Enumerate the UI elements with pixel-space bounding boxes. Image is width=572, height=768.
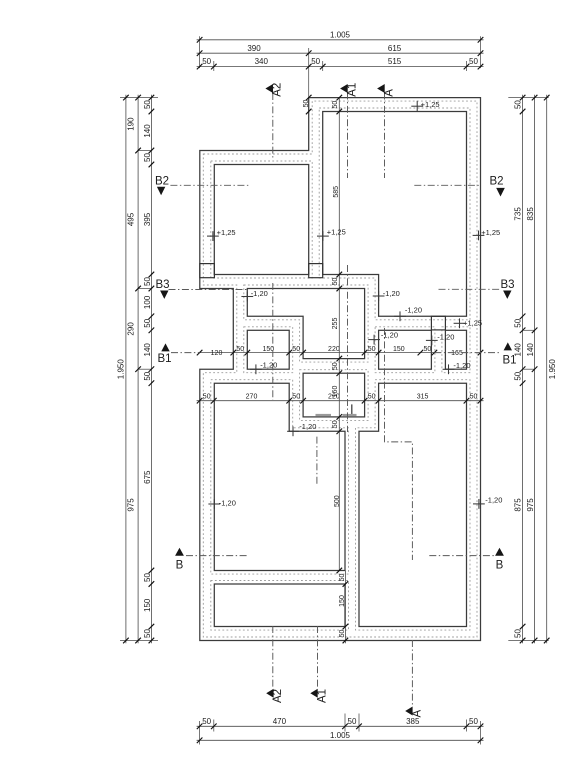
svg-text:675: 675 [143, 470, 152, 484]
svg-text:-1,20: -1,20 [251, 289, 268, 298]
top extension lines [199, 36, 201, 68]
svg-text:50: 50 [203, 393, 211, 400]
bottom strip room outline [214, 584, 345, 627]
svg-text:50: 50 [332, 101, 339, 109]
svg-text:255: 255 [332, 318, 339, 330]
svg-text:B2: B2 [489, 176, 503, 188]
level mark -1,20 room BL step [287, 426, 299, 436]
section marker B right [495, 548, 504, 556]
svg-text:50: 50 [202, 717, 211, 726]
svg-text:B: B [176, 560, 184, 572]
svg-text:50: 50 [470, 393, 478, 400]
top dimension line 50/340/50/515/50 [197, 66, 484, 68]
svg-text:A: A [412, 710, 424, 718]
svg-text:50: 50 [143, 153, 152, 162]
outer wall footprint outline [200, 98, 481, 641]
level mark +1,25 room TR top [411, 101, 423, 112]
section line B3 left [169, 289, 248, 291]
svg-text:-1,20: -1,20 [260, 361, 277, 370]
footing dotted line: corridor cell right offset [442, 327, 470, 373]
svg-text:975: 975 [526, 498, 535, 512]
level mark -1,20 L-room top right [373, 291, 385, 301]
svg-text:100: 100 [143, 295, 152, 309]
svg-text:495: 495 [127, 212, 136, 226]
svg-text:B1: B1 [157, 353, 171, 365]
svg-text:50: 50 [292, 393, 300, 400]
svg-text:150: 150 [143, 598, 152, 612]
section line A [384, 93, 386, 179]
section marker A2 top [265, 84, 273, 93]
level mark -1,20 corridor wall [426, 336, 438, 346]
svg-text:50: 50 [514, 629, 523, 638]
footing dotted line: room TL offset [211, 161, 312, 278]
section line B right [429, 555, 494, 557]
right dimension ticks [520, 95, 550, 644]
section line B2 left [170, 184, 249, 186]
left dimension ticks [123, 95, 154, 644]
bottom dimension line 1.005 [197, 739, 484, 741]
level mark -1,20 room BR right [473, 499, 485, 509]
footing dotted line: pit room P offset [244, 327, 293, 373]
section line B1 right [434, 352, 501, 354]
level mark +1,25 room TL left [207, 231, 219, 241]
footing dotted line: room BL offset [211, 380, 349, 574]
section marker B2 right [496, 188, 505, 197]
svg-text:A2: A2 [272, 83, 284, 97]
room 160 outline [303, 373, 365, 417]
footing dotted line: room TR offset [319, 108, 470, 320]
room BL outline [214, 383, 345, 570]
level mark -1,20 pit room P [250, 364, 262, 374]
svg-text:835: 835 [526, 207, 535, 221]
svg-text:1.950: 1.950 [117, 359, 126, 380]
right dimension line outer 1.950 [546, 95, 548, 644]
svg-text:-1,20: -1,20 [437, 332, 454, 341]
footing dotted line: room BR offset [356, 380, 471, 630]
svg-text:+1,25: +1,25 [217, 228, 236, 237]
svg-text:50: 50 [303, 100, 310, 108]
svg-text:50: 50 [339, 574, 346, 582]
svg-text:615: 615 [388, 44, 402, 53]
section line B left [186, 555, 248, 557]
top dimension ticks [197, 37, 484, 69]
svg-text:140: 140 [526, 343, 535, 357]
svg-text:50: 50 [202, 57, 211, 66]
section line A1 [347, 93, 349, 179]
svg-text:50: 50 [514, 318, 523, 327]
footing dotted line: room 160 offset [300, 370, 369, 421]
section line A2 [272, 93, 274, 158]
svg-text:-1,20: -1,20 [219, 499, 236, 508]
svg-text:50: 50 [143, 100, 152, 109]
svg-text:+1,25: +1,25 [327, 227, 346, 236]
bottom dimension ticks [197, 724, 484, 744]
section marker B2 left [157, 187, 165, 195]
footing dotted line: corridor cell left offset [375, 327, 435, 373]
svg-text:B3: B3 [500, 279, 514, 291]
svg-text:340: 340 [255, 57, 269, 66]
svg-text:+1,25: +1,25 [463, 319, 482, 328]
svg-text:160: 160 [332, 386, 339, 398]
bottom extension lines [199, 721, 201, 745]
svg-text:50: 50 [143, 573, 152, 582]
svg-text:50: 50 [311, 57, 320, 66]
svg-text:50: 50 [332, 362, 339, 370]
svg-text:220: 220 [328, 346, 340, 353]
bottom strip vertical dimension 50/150/50 [344, 571, 346, 644]
section line B1 left stub [171, 352, 200, 354]
svg-text:190: 190 [127, 117, 136, 131]
section marker A2 bottom [266, 689, 273, 698]
mid L-shaped room outline [247, 289, 364, 359]
top dimension line 1.005 [197, 39, 484, 41]
svg-text:50: 50 [332, 278, 339, 286]
svg-text:50: 50 [368, 393, 376, 400]
opening mark 1 in room 160 [316, 414, 332, 417]
svg-text:-1,20: -1,20 [381, 330, 398, 339]
svg-text:B2: B2 [155, 175, 169, 187]
opening jamb line in room 160 [351, 404, 353, 417]
left dimension line outer 1.950 [125, 95, 127, 644]
level mark -1,20 L-room top left [241, 292, 253, 302]
svg-text:50: 50 [339, 630, 346, 638]
section marker B3 left [160, 291, 168, 299]
svg-text:315: 315 [417, 393, 429, 400]
section marker B left [175, 548, 184, 556]
svg-text:140: 140 [143, 343, 152, 357]
svg-text:875: 875 [514, 498, 523, 512]
svg-text:50: 50 [514, 371, 523, 380]
svg-text:-1,20: -1,20 [485, 496, 502, 505]
svg-text:+1,25: +1,25 [481, 228, 500, 237]
level mark -1,20 TR bottom wall [394, 311, 406, 321]
svg-text:B1: B1 [502, 355, 516, 367]
svg-text:+1,25: +1,25 [421, 100, 440, 109]
left extension lines [120, 97, 158, 99]
svg-text:50: 50 [469, 57, 478, 66]
svg-text:50: 50 [236, 346, 244, 353]
B1 level dimension chain 120/50/150/50/220/50/150/50/165 [200, 352, 435, 354]
pilaster block left [200, 264, 215, 278]
top dimension line 390/615 [197, 52, 484, 54]
section marker A1 bottom [310, 689, 317, 698]
footing dotted line: L-shaped mid room offset [244, 285, 368, 362]
footing dotted line: bottom strip room offset [211, 581, 349, 631]
section marker B1 right [504, 342, 512, 350]
section marker A top [377, 84, 385, 93]
level mark +1,25 room TL right [317, 231, 329, 241]
lower mid dimension chain 50/270/50/220/50/315/50 [197, 400, 484, 402]
level mark -1,20 room BL left [208, 499, 220, 509]
svg-text:395: 395 [143, 212, 152, 226]
svg-text:500: 500 [334, 495, 341, 507]
svg-text:B3: B3 [155, 279, 169, 291]
svg-text:1.005: 1.005 [330, 731, 351, 740]
central vertical dimension line 50/585/50/255/50/160/50/500 [338, 98, 340, 571]
svg-text:50: 50 [292, 346, 300, 353]
svg-text:A: A [384, 89, 396, 97]
footing dotted line: outer footprint inset [203, 101, 477, 637]
left dimension line middle chain [137, 95, 139, 644]
right extension lines [508, 97, 548, 99]
svg-text:A1: A1 [347, 83, 359, 97]
bottom dimension line 50/470/50/385/50 [197, 725, 484, 727]
section line B3 right [439, 288, 502, 290]
svg-text:1.005: 1.005 [330, 30, 351, 39]
svg-text:50: 50 [348, 717, 357, 726]
svg-text:140: 140 [143, 124, 152, 138]
corridor cell right outline [445, 330, 466, 369]
svg-text:50: 50 [143, 629, 152, 638]
svg-text:-1,20: -1,20 [405, 305, 422, 314]
svg-text:-1,20: -1,20 [299, 422, 316, 431]
svg-text:50: 50 [143, 371, 152, 380]
room TL interior outline [214, 165, 308, 275]
pit room P outline [247, 330, 289, 369]
svg-text:A2: A2 [272, 689, 284, 703]
svg-text:290: 290 [127, 322, 136, 336]
level mark -1,20 wall left of corridor [368, 335, 380, 345]
svg-text:A1: A1 [317, 689, 329, 703]
right dimension line inner chain [522, 95, 524, 644]
opening mark 2 in room 160 [343, 414, 357, 417]
svg-text:50: 50 [469, 717, 478, 726]
svg-text:50: 50 [514, 100, 523, 109]
svg-text:735: 735 [514, 207, 523, 221]
section marker B3 right [503, 291, 511, 299]
svg-text:50: 50 [368, 346, 376, 353]
level mark +1,25 room TR right [473, 231, 485, 241]
pilaster block on corridor wall [431, 316, 445, 330]
svg-text:-1,20: -1,20 [383, 289, 400, 298]
svg-text:120: 120 [211, 350, 223, 357]
right dimension line middle chain [534, 95, 536, 644]
svg-text:270: 270 [246, 393, 258, 400]
section marker A1 top [340, 84, 348, 93]
svg-text:165: 165 [451, 350, 463, 357]
svg-text:150: 150 [339, 595, 346, 607]
level mark -1,20 corridor right cell [443, 364, 455, 374]
svg-text:50: 50 [143, 318, 152, 327]
left dimension line inner chain [150, 95, 152, 644]
level mark +1,25 corridor right [454, 318, 466, 328]
svg-text:470: 470 [273, 717, 287, 726]
svg-text:-1,20: -1,20 [453, 361, 470, 370]
room TR interior outline (L-shaped) [323, 112, 467, 317]
corridor cell left outline [379, 330, 432, 369]
svg-text:50: 50 [424, 346, 432, 353]
svg-text:150: 150 [393, 346, 405, 353]
section marker A bottom [405, 707, 412, 716]
svg-text:515: 515 [388, 57, 402, 66]
section marker B1 left [161, 343, 169, 351]
svg-text:50: 50 [332, 420, 339, 428]
pilaster block right [309, 264, 323, 278]
svg-text:585: 585 [333, 186, 340, 198]
svg-text:1.950: 1.950 [548, 359, 557, 380]
room BR outline [359, 383, 467, 626]
section line B2 right [414, 184, 481, 186]
svg-text:B: B [496, 560, 504, 572]
svg-text:975: 975 [127, 498, 136, 512]
svg-text:390: 390 [247, 44, 261, 53]
svg-text:50: 50 [143, 277, 152, 286]
